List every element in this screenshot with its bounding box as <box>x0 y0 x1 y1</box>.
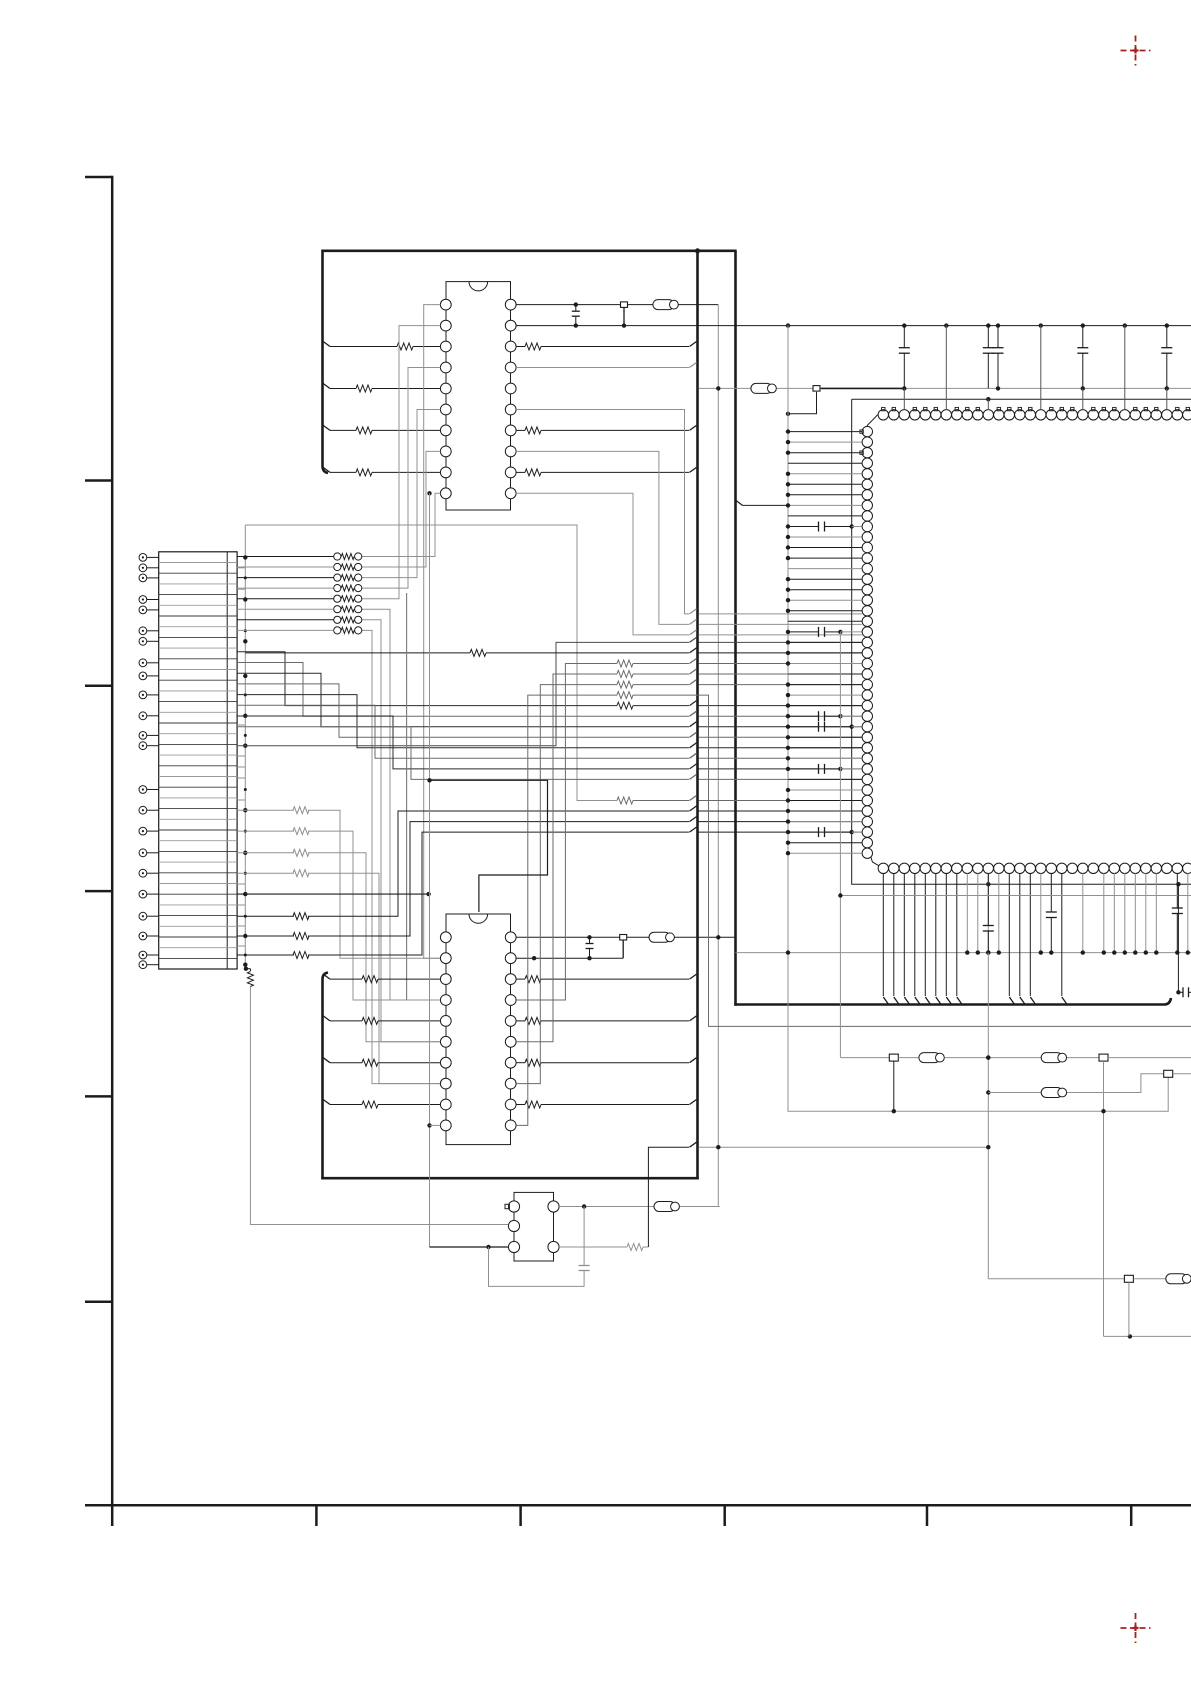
ferrite bead B1 <box>919 1053 944 1063</box>
junction on box1 top edge <box>695 248 700 253</box>
border tick bottom 6 <box>1130 1505 1133 1526</box>
wire U4 left pin row <box>786 746 862 750</box>
wire U2 pin19 <box>516 956 623 960</box>
junction ring top <box>986 397 990 401</box>
wire U4 bottom pin 2 drop <box>904 873 909 1003</box>
IC U3 pins <box>505 1201 559 1253</box>
wire U4 bottom pin 7 drop <box>957 873 962 1003</box>
wire connector row stub b <box>237 588 245 590</box>
wire U4 left pin row <box>786 429 862 433</box>
connector CN1 body <box>159 552 237 969</box>
resistor R13 (U1 left pin) <box>323 467 440 476</box>
wire U4 left pin row <box>786 841 862 845</box>
wire U4 bottom pin 25 stub <box>1144 873 1148 955</box>
wire U4 left pin row <box>786 535 862 539</box>
junction ground bus small <box>244 915 247 918</box>
wire U4 left pin row <box>786 703 862 707</box>
IC U4 body (QFP) <box>867 415 1191 869</box>
wire U4 left pin row <box>786 451 862 455</box>
wire U4 bottom pin 17 drop <box>1062 873 1067 1003</box>
wire U3 out net <box>559 1204 720 1208</box>
junction on bus VDD <box>902 386 906 390</box>
junction ground bus <box>243 674 247 678</box>
ferrite bead B3 <box>1041 1088 1066 1098</box>
ferrite bead B4 <box>1166 1274 1191 1284</box>
resistor R42 connector-to-U2 <box>237 849 440 1042</box>
resistor R73 (U2 right) <box>516 1100 696 1109</box>
capacitor C-top x1082 <box>1077 325 1088 388</box>
resistor R30 (below connector) <box>244 967 508 1225</box>
test point square TP1 <box>621 302 628 328</box>
junction on bus VDD <box>1081 386 1085 390</box>
border tick left 3 <box>85 890 112 893</box>
resistor R11 (U1 left pin) <box>323 384 440 393</box>
junction on bus VCC1 <box>1123 323 1127 327</box>
border tick left 2 <box>85 685 112 688</box>
wire U4 bottom pin 24 stub <box>1133 873 1137 955</box>
wire bus-to-U4 top pin x988 <box>987 399 989 410</box>
wire U1pin11-U2pin11 vertical <box>427 493 440 1247</box>
wire U4 left pin row <box>786 788 862 792</box>
resistor R21 row35 wire <box>617 796 862 805</box>
junction ground bus <box>243 714 247 718</box>
wire network-to-U1 staircase 0 <box>362 493 441 556</box>
wire bus-to-U4 top pin x904 <box>903 388 905 409</box>
junction on bus VCC1 <box>786 323 790 327</box>
QFP guard ring <box>852 399 1191 884</box>
wire B3-S1 <box>1067 1074 1164 1093</box>
wire U4 left pin row <box>786 440 862 444</box>
wire connector row stub <box>237 883 245 885</box>
border tick left 1 <box>85 479 112 482</box>
border tick bottom 4 <box>723 1505 726 1526</box>
wire connector row to U2 vertical <box>237 892 431 896</box>
IC U4 pin marks <box>860 407 1190 454</box>
wire connector row stub <box>237 799 245 801</box>
junction ground bus <box>243 963 247 967</box>
wire connector row stub <box>237 904 245 906</box>
wire U4 left pin row <box>788 515 862 517</box>
resistor R60 (U2 left) <box>323 974 440 983</box>
junction ground bus <box>243 555 247 559</box>
capacitor C-top x904 <box>899 325 910 388</box>
capacitor C-left row 28 <box>786 722 862 732</box>
wire connector-to-QFP row 30 <box>237 695 862 748</box>
resistor R10 (U1 left pin) <box>323 342 440 351</box>
junction ring bottom <box>986 882 1181 886</box>
wire connector-to-QFP row 32 <box>237 716 862 769</box>
shield box1 bottom edge <box>321 1177 699 1180</box>
wire connector-to-QFP row 31 <box>237 705 862 758</box>
resistor network RN1 (8x) <box>334 553 362 634</box>
wire ground bus at connector <box>245 525 617 969</box>
wire U4 left pin row <box>788 673 862 675</box>
wire U3 left-mid pin <box>249 1224 251 1226</box>
wire U4 left pin row <box>786 693 862 697</box>
wire U4 left pin row <box>786 577 862 581</box>
wire connector-to-QFP row 26 <box>237 652 862 709</box>
test point square S2 <box>889 1054 898 1113</box>
wire network-to-U1 staircase 2 <box>362 410 441 578</box>
junction rail-bus <box>786 950 790 954</box>
wire U4 bottom pin 21 stub <box>1102 873 1106 955</box>
junction on bus VCC1 <box>986 323 990 327</box>
junction on bus VCC1 <box>944 323 948 327</box>
border tick bottom 1 <box>111 1505 114 1526</box>
wire network-to-U1 staircase 4 <box>362 326 441 599</box>
resistor R12 (U1 left pin) <box>323 425 440 434</box>
junction ground bus <box>243 639 247 643</box>
capacitor C-left row 27 <box>786 711 862 721</box>
wire U4 bottom pin 13 drop <box>1020 873 1025 1003</box>
border tick bottom 3 <box>519 1505 522 1526</box>
wire U4 left pin row <box>786 682 862 686</box>
test point square S1 <box>1164 1070 1191 1077</box>
wire bus-to-U4 top pin x1040 <box>1040 325 1042 410</box>
border tick bottom 5 <box>926 1505 929 1526</box>
wire row7 from box2 edge <box>736 501 788 506</box>
capacitor C-bottom 10 <box>983 873 994 955</box>
ferrite bead L1 <box>653 300 678 310</box>
wire U4 left pin row <box>786 545 862 549</box>
wire U4 left pin row <box>788 778 862 780</box>
junction ground bus small <box>244 693 247 696</box>
wire connector row to RN1 5 <box>237 608 334 610</box>
wire bus VCC1 (y=325) <box>516 325 1191 327</box>
wire U4 bottom pin 29 stub <box>1186 873 1190 955</box>
resistor R52 connector long wire <box>237 827 862 958</box>
shield box1 right edge <box>696 251 699 1180</box>
wire B2-S3 <box>1067 1057 1099 1059</box>
wire U4 bottom pin 0 drop <box>883 873 888 1003</box>
capacitor C3 (U3) <box>489 1207 590 1287</box>
wire connector-to-QFP row 20 <box>237 637 862 745</box>
wire U4 bottom pin 6 drop <box>946 873 951 1003</box>
wire connector row stub <box>237 925 245 927</box>
wire U4 bottom pin 10 stub <box>986 873 990 955</box>
wire bus VDD (y=388) <box>699 387 1191 389</box>
ferrite bead L3 <box>654 1202 679 1212</box>
shield box2 left edge <box>734 251 737 1006</box>
junction on bus VDD <box>996 386 1000 390</box>
wire U4 left pin row <box>786 588 862 592</box>
wire connector row to RN1 4 <box>237 598 334 600</box>
connector CN1 row lines <box>159 563 237 959</box>
junction on bus VCC1 <box>996 323 1000 327</box>
wire U4 left pin row <box>786 809 862 813</box>
shield box2 bottom edge <box>734 998 1171 1005</box>
wire U4 left pin row <box>786 640 862 644</box>
wire U4 left pin row <box>786 851 862 855</box>
wire connector row stub <box>237 945 245 947</box>
wire U4 bottom pin 14 drop <box>1030 873 1035 1003</box>
wire connector row to RN1 7 <box>237 629 334 631</box>
wire network-to-U1 staircase 1 <box>362 451 441 567</box>
junction ground bus small <box>244 830 247 833</box>
IC U1 body (DIP20) <box>446 282 511 510</box>
wire U3 R8 riser <box>648 1142 988 1247</box>
wire U4 left pin row <box>786 798 862 802</box>
wire U4 bottom pin 8 stub <box>965 873 969 955</box>
wire U4 left pin row <box>786 609 862 613</box>
wire connector row stub <box>237 755 245 757</box>
wire U4 left pin row <box>786 598 862 602</box>
wire U4 bottom pin 4 drop <box>925 873 930 1003</box>
capacitor C-left row 32 <box>786 764 862 774</box>
wire B4 out <box>1190 1278 1191 1280</box>
junction on bus VCC1 <box>902 323 906 327</box>
wire U4 left pin row <box>788 568 862 570</box>
resistor R41 connector-to-U2 <box>237 828 440 1000</box>
wire connector row to RN1 2 <box>237 577 334 579</box>
capacitor C2 <box>586 937 594 960</box>
resistor R72 (U2 right) <box>516 1058 696 1067</box>
resistor R20 row21 wire <box>245 648 862 657</box>
IC U1 pins <box>440 299 516 498</box>
wire U4 bottom pin 19 stub <box>1081 873 1085 955</box>
wire U1 pin20 net <box>516 304 718 306</box>
wire U4 left pin row <box>786 735 862 739</box>
wire U4 left pin row <box>786 819 862 823</box>
wire connector row to RN1 3 <box>237 587 334 589</box>
wire U4 left pin row <box>786 651 862 655</box>
IC U2 body (DIP20) <box>446 914 511 1145</box>
wire U4 left pin row <box>788 462 862 464</box>
border tick bottom 2 <box>315 1505 318 1526</box>
junction ground bus <box>243 851 247 855</box>
wire U4 bottom pin 15 stub <box>1039 873 1043 955</box>
wire y=1092 net <box>988 1092 1041 1094</box>
junction ground bus small <box>244 629 247 632</box>
wire connector row to RN1 6 <box>237 619 334 621</box>
junction ground bus small <box>244 734 247 737</box>
wire rail x=788 vertical <box>788 325 1168 1111</box>
wire connector row stub <box>237 777 245 779</box>
wire connector row stub a <box>237 567 245 569</box>
junction U1 pin11 wire <box>427 491 431 495</box>
wire U4 bottom pin 23 stub <box>1123 873 1127 955</box>
IC U2 pins <box>440 932 516 1131</box>
junction ground bus <box>243 934 247 938</box>
wire U1 pin1 drop <box>424 305 441 959</box>
capacitor C-left row 19 <box>786 627 862 637</box>
resistor R21 (U1 right pin) <box>516 425 696 434</box>
wire bus-to-U4 top pin x1166 <box>1166 388 1168 409</box>
wire U4 left pin row <box>786 556 862 560</box>
wire U4 bottom pin 26 stub <box>1154 873 1158 955</box>
junction <box>574 302 578 306</box>
wire network-to-U2 long staircase 5 <box>362 609 441 1000</box>
wire y=1057 net <box>840 1057 889 1059</box>
wire U4 left pin row <box>786 472 862 476</box>
junction ground bus <box>243 808 247 812</box>
capacitor C-bottom 16 <box>1046 873 1057 955</box>
IC U4 top pins <box>878 410 1191 420</box>
wire net to S4 <box>988 1278 1124 1280</box>
capacitor C-left row 9 <box>786 522 862 532</box>
wire connector row stub <box>237 766 245 768</box>
wire U3 bottom-left net <box>430 1245 509 1249</box>
junction ground bus small <box>244 576 247 579</box>
wire U4 left pin row <box>786 482 862 486</box>
wire U2 pin20 net <box>516 935 735 939</box>
registration mark bottom-right <box>1121 1613 1151 1643</box>
resistor R71 (U2 right) <box>516 1016 696 1025</box>
page border left rule <box>85 176 112 1507</box>
wire bus below U4 (y=953) <box>736 952 1191 954</box>
resistor R43 connector-to-U2 <box>237 870 440 1084</box>
wire U2 right staircase 3 <box>516 692 1191 1126</box>
capacitor C-top x998 <box>993 325 1004 388</box>
ferrite bead L2 <box>649 932 674 942</box>
junction <box>587 935 591 939</box>
capacitor C-bottom 28 <box>1172 873 1183 955</box>
shield box1 top edge <box>323 250 737 253</box>
shield box1 left edge upper <box>323 250 329 474</box>
resistor R61 (U2 left) <box>323 1016 440 1025</box>
wire U4 bottom pin 12 drop <box>1009 873 1014 1003</box>
wire bus-to-U4 top pin x946 <box>945 325 947 410</box>
wire U4 bottom pin 9 stub <box>976 873 980 955</box>
junction ground bus small <box>244 872 247 875</box>
capacitor C-left row 38 <box>786 827 862 837</box>
wire U1 pin20 drop <box>717 305 719 1206</box>
wire clock jog <box>427 778 547 912</box>
junction ground bus small <box>244 954 247 957</box>
resistor R70 (U2 right) <box>516 974 696 983</box>
wire U4 pin net long drop <box>986 953 990 1279</box>
wire U2 right staircase 2 <box>516 680 862 1084</box>
wire U1 right pin staircase 1 <box>516 451 862 624</box>
page border bottom rule <box>85 1504 1191 1507</box>
connector CN1 terminals <box>139 554 159 969</box>
shield box1 left edge lower <box>323 973 329 1180</box>
registration mark top-right <box>1121 36 1151 66</box>
junction on bus VCC1 <box>1039 323 1043 327</box>
wire U2 right staircase 0 <box>516 659 862 1001</box>
wire network-to-U2 long staircase 7 <box>362 630 441 1083</box>
IC U4 left pins <box>862 426 872 858</box>
wire U4 left pin row <box>786 503 862 507</box>
test point square S3 <box>1099 1054 1191 1061</box>
wire network-to-U2 long staircase 6 <box>362 620 441 1042</box>
wire U4 left pin row <box>788 620 862 622</box>
IC U4 bottom pins <box>878 863 1191 873</box>
border tick left 4 <box>85 1095 112 1098</box>
wire U1 right pin staircase 2 <box>516 493 862 635</box>
wire connector-to-QFP row 27 <box>237 663 862 717</box>
resistor R40 connector-to-U2 <box>237 807 440 959</box>
wire U4 left pin row <box>786 493 862 497</box>
resistor R22 (U1 right pin) <box>516 467 696 476</box>
wire U4 left pin row <box>786 661 862 665</box>
wire connector-to-QFP row 29 <box>237 684 862 737</box>
resistor R51 connector long wire <box>237 817 862 940</box>
junction ground bus <box>243 597 247 601</box>
wire connector row to RN1 0 <box>237 556 334 558</box>
wire connector row stub <box>237 724 245 726</box>
resistor R50 connector long wire <box>237 806 862 920</box>
wire connector-to-QFP row 28 <box>237 673 862 727</box>
wire connector-to-QFP row 33 <box>237 727 862 780</box>
capacitor C-top x988 <box>983 325 994 388</box>
wire U4 bottom pin 1 drop <box>894 873 899 1003</box>
wire bus-to-U4 top pin x1082 <box>1082 388 1084 409</box>
wire S2-B1 <box>898 1057 919 1059</box>
wire network-to-U1 staircase 3 <box>362 368 441 589</box>
wire rail x=840 vertical <box>839 632 841 1058</box>
wire U4 bottom pin 5 drop <box>936 873 941 1003</box>
wire long mid vertical <box>407 593 441 1000</box>
wire U1 right pin staircase 0 <box>516 410 862 614</box>
wire U2 right staircase 1 <box>516 669 862 1042</box>
junction ground bus small <box>244 788 247 791</box>
wire U4 left pin row <box>786 756 862 760</box>
wire U4 bottom pin 11 stub <box>997 873 1001 955</box>
capacitor C-top x1166 <box>1161 325 1172 388</box>
wire B1-B2 <box>945 1055 1041 1059</box>
test point square S4 <box>1124 1275 1165 1282</box>
wire U4 bottom pin 22 stub <box>1112 873 1116 955</box>
resistor R63 (U2 left) <box>323 1100 440 1109</box>
border tick left 5 <box>85 1300 112 1303</box>
wire S4 drop <box>1128 1282 1130 1336</box>
test point square TP3 <box>786 386 905 416</box>
junction ground bus <box>243 892 247 896</box>
wire S3 drop <box>1101 1061 1191 1339</box>
resistor R20 (U1 right pin) <box>516 342 696 351</box>
capacitor C-right edge <box>1176 884 1191 997</box>
junction on bus VDD <box>1165 386 1169 390</box>
IC U3 body <box>514 1192 554 1261</box>
wire U1 pin17 net <box>516 363 696 368</box>
wire U4 bottom pin 3 drop <box>915 873 920 1003</box>
junction ground bus <box>243 744 247 748</box>
ferrite bead L4 <box>751 383 776 393</box>
wire bus-to-U4 top pin x1124 <box>1124 325 1126 410</box>
capacitor C1 <box>572 305 580 328</box>
ferrite bead B2 <box>1041 1053 1066 1063</box>
junction bead-VDD <box>716 386 720 390</box>
resistor R62 (U2 left) <box>323 1058 440 1067</box>
test point square TP2 <box>620 935 627 959</box>
resistor R8 (U3 right) <box>559 1244 648 1251</box>
junction on bus VCC1 <box>1081 323 1085 327</box>
wire connector row to RN1 1 <box>237 566 334 568</box>
junction on bus VCC1 <box>1165 323 1169 327</box>
wire y=895 rail <box>838 893 1191 897</box>
